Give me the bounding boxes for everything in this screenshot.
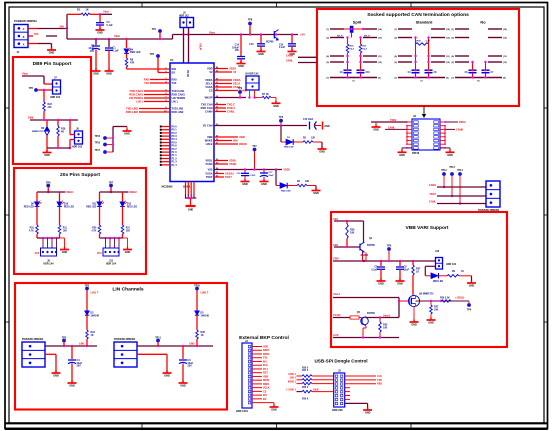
ic U1 left pin wires	[126, 67, 170, 114]
svg-text:DB9: DB9	[28, 116, 34, 120]
net label Vbat DB9	[22, 72, 28, 76]
capacitors No	[465, 69, 495, 83]
svg-text:CANL: CANL	[429, 200, 436, 203]
svg-text:LIN2: LIN2	[189, 342, 195, 346]
svg-text:INT: INT	[263, 394, 267, 397]
svg-text:BKP1: BKP1	[263, 349, 270, 352]
svg-text:BKP2: BKP2	[263, 353, 270, 356]
svg-text:GND: GND	[271, 409, 277, 412]
wire DB9 bus	[30, 119, 78, 121]
svg-text:R11: R11	[63, 228, 68, 230]
wire TP cluster to gnd	[112, 127, 127, 153]
svg-text:CANH: CANH	[456, 128, 463, 131]
wire Q5 emitter	[363, 326, 366, 338]
svg-text:1.3K: 1.3K	[426, 40, 431, 42]
resistor R31	[290, 370, 334, 381]
svg-text:TP5: TP5	[29, 87, 34, 90]
svg-text:(13): (13)	[446, 38, 450, 40]
ground C14	[237, 61, 246, 68]
svg-text:12K: 12K	[311, 137, 316, 139]
svg-text:TP8: TP8	[248, 19, 253, 22]
resistor R33	[379, 318, 388, 338]
svg-text:R34 0: R34 0	[302, 398, 309, 401]
ground R4	[312, 188, 321, 195]
wire J5 pin2 to U1	[188, 28, 190, 64]
svg-text:(4): (4)	[326, 55, 329, 58]
svg-text:TXD LIN2: TXD LIN2	[172, 106, 184, 110]
ground C20	[288, 49, 297, 56]
wire gate Q4	[399, 300, 408, 302]
svg-text:(14): (14)	[378, 28, 382, 31]
svg-text:4K: 4K	[61, 130, 64, 133]
svg-text:SO20L: SO20L	[183, 185, 191, 188]
test point TP2	[85, 284, 90, 311]
socket J2 DIP16	[412, 119, 440, 155]
wire R1 branch	[67, 13, 112, 28]
svg-text:VBB: VBB	[207, 135, 213, 139]
svg-text:DB9 Pin Support: DB9 Pin Support	[33, 61, 72, 67]
svg-text:GND: GND	[93, 73, 99, 76]
ground conn TP11	[163, 371, 172, 378]
ground R3	[318, 147, 327, 154]
diode D12	[120, 192, 137, 225]
wire J2 bottom right gnd	[440, 148, 455, 157]
svg-text:TP15: TP15	[95, 136, 101, 138]
svg-text:MMBZ27VC: MMBZ27VC	[32, 131, 44, 133]
svg-text:GND: GND	[53, 375, 59, 378]
net label VSUP	[199, 43, 203, 50]
svg-text:10K: 10K	[434, 308, 439, 311]
svg-text:1K: 1K	[416, 270, 419, 273]
svg-text:(5): (5)	[451, 62, 454, 64]
title DB9 Pin Support	[33, 61, 72, 67]
svg-text:VCAN: VCAN	[333, 313, 340, 317]
connector J10	[435, 250, 457, 269]
socket pin numbers Standard	[394, 28, 450, 80]
net label 3V3	[34, 33, 39, 36]
diode D2	[85, 311, 100, 330]
svg-text:1N4148: 1N4148	[201, 314, 210, 317]
net label 3V3 J9	[35, 252, 40, 255]
resistor R8	[125, 54, 134, 67]
wire CANL to P2	[429, 200, 486, 203]
svg-text:GND: GND	[378, 283, 384, 286]
socket J2 left pin stubs	[406, 121, 412, 149]
svg-text:22uF: 22uF	[269, 175, 275, 177]
svg-text:VSSA: VSSA	[205, 171, 212, 175]
ground R27	[427, 318, 436, 325]
svg-text:TEST: TEST	[206, 175, 213, 179]
wire top DBG2	[100, 191, 129, 193]
test point TP16	[95, 143, 114, 147]
svg-text:1K: 1K	[86, 8, 89, 11]
svg-text:(8): (8)	[378, 78, 381, 80]
svg-text:TP7: TP7	[109, 181, 114, 184]
resistor R24	[86, 330, 96, 346]
svg-text:GND: GND	[261, 183, 267, 186]
wire LIN bus LIN2	[137, 345, 213, 347]
svg-text:SCLK: SCLK	[263, 387, 270, 390]
svg-text:R21: R21	[126, 228, 131, 230]
capacitor C2	[96, 14, 113, 29]
capacitor C14	[232, 35, 245, 64]
ground U1	[186, 206, 196, 211]
svg-text:V2: V2	[233, 70, 237, 74]
svg-text:GND: GND	[242, 183, 248, 186]
svg-text:0.1uF: 0.1uF	[371, 268, 378, 271]
wires J6 to net	[248, 90, 255, 99]
svg-text:BCP68: BCP68	[266, 41, 274, 43]
svg-text:10K: 10K	[126, 230, 131, 232]
svg-text:0.1uF: 0.1uF	[279, 47, 286, 49]
svg-text:GND: GND	[325, 126, 330, 128]
net label DBG1	[67, 190, 75, 194]
svg-text:GND: GND	[319, 151, 325, 154]
svg-text:10K 1: 10K 1	[290, 377, 297, 380]
svg-text:RED LED: RED LED	[281, 190, 291, 192]
resistor R11	[58, 225, 67, 238]
ground C16	[241, 179, 250, 186]
connector J3 USB-SPI	[332, 370, 345, 412]
svg-text:DBG2: DBG2	[130, 190, 138, 194]
wire J2 pin16	[445, 121, 466, 124]
diode D11	[86, 192, 104, 225]
ic U1 body	[170, 58, 214, 181]
svg-text:SPLIT: SPLIT	[364, 36, 370, 38]
svg-text:LIN 1: LIN 1	[172, 99, 179, 103]
svg-text:20x Pins Support: 20x Pins Support	[60, 172, 100, 178]
zener diode D6	[32, 120, 49, 148]
ic U1 right pin names	[201, 66, 213, 178]
svg-text:HDR 1X2: HDR 1X2	[179, 16, 189, 18]
svg-text:1K: 1K	[201, 334, 204, 337]
svg-text:MOSI 1: MOSI 1	[288, 381, 297, 384]
svg-text:D10: D10	[64, 204, 69, 206]
wire Vbat to J7	[22, 76, 53, 84]
svg-text:TXD CAN1: TXD CAN1	[130, 89, 144, 93]
ground C15 sideways	[323, 122, 330, 130]
svg-text:Vme2: Vme2	[383, 314, 390, 318]
svg-text:(2): (2)	[394, 38, 397, 40]
svg-text:DBG1: DBG1	[67, 190, 75, 194]
mosfet Q4	[408, 292, 434, 306]
svg-text:VDD2: VDD2	[284, 169, 291, 172]
vertical link J2 right	[444, 126, 446, 145]
wire conn mid pin to gnd TP3	[45, 354, 56, 372]
net label Vme2	[383, 314, 390, 318]
svg-text:R30 0: R30 0	[302, 367, 309, 369]
transistor Q5	[357, 311, 376, 326]
svg-text:RXD CAN: RXD CAN	[201, 106, 213, 110]
svg-text:INH: INH	[233, 138, 238, 142]
svg-text:22uF: 22uF	[404, 268, 410, 271]
resistor R4	[297, 180, 316, 190]
svg-text:SIN: SIN	[172, 67, 176, 71]
wire J5 pin1 to U1	[183, 28, 185, 64]
svg-text:3V3: 3V3	[97, 252, 102, 255]
resistor R21	[121, 225, 130, 238]
svg-text:CANH: CANH	[286, 55, 293, 58]
svg-text:IN L: IN L	[263, 360, 268, 363]
svg-text:WKUP: WKUP	[205, 95, 213, 99]
svg-text:TP16: TP16	[95, 143, 101, 145]
svg-text:SELA: SELA	[206, 81, 213, 85]
wire Q4 drain right	[416, 300, 470, 302]
svg-text:J10: J10	[435, 250, 440, 253]
svg-text:GND: GND	[106, 73, 112, 76]
svg-text:IN H: IN H	[263, 364, 268, 367]
highlight box 20x Pins Support	[14, 168, 146, 274]
wire Q5 collector to Vme2	[366, 316, 399, 318]
wire bus2 to led row2	[275, 170, 277, 186]
svg-text:TP9: TP9	[238, 88, 243, 90]
svg-text:VDDL: VDDL	[229, 158, 237, 162]
svg-text:LIN1 T: LIN1 T	[91, 291, 99, 295]
label J2	[413, 114, 416, 118]
wire CANH into box	[286, 55, 317, 58]
svg-text:(7): (7)	[451, 78, 454, 80]
svg-text:CANL: CANL	[286, 60, 293, 63]
svg-text:GND: GND	[365, 412, 371, 415]
highlight box DB9 Pin Support	[13, 57, 91, 164]
svg-text:VB1: VB1	[333, 217, 339, 221]
svg-text:TP6: TP6	[387, 244, 392, 247]
svg-text:D12: D12	[127, 204, 132, 206]
capacitor C17	[260, 170, 274, 182]
capacitor C16	[236, 170, 256, 182]
ic U1 bottom pins	[186, 182, 195, 195]
highlight box VBB VARI Support	[331, 212, 507, 347]
svg-text:VSSA2: VSSA2	[225, 171, 234, 175]
connector TP3 PCB3HW label	[22, 338, 44, 341]
title VBB VARI Support	[405, 225, 448, 231]
connector J1 PCB3HW 3RW/RA label	[14, 19, 37, 23]
connector P2	[478, 181, 500, 212]
wire J1 pin2 stub	[28, 35, 57, 37]
svg-text:R33 0: R33 0	[302, 387, 309, 389]
wire R37 to Q4 drain	[412, 275, 414, 296]
net label DB9	[28, 116, 34, 120]
ground J2 left	[372, 125, 381, 132]
wire J10 pin2 to LED	[425, 266, 435, 276]
ground C1	[105, 69, 114, 76]
wire J8 pins	[69, 120, 75, 149]
wire standard vertical links	[414, 44, 429, 70]
svg-text:VS2: VS2	[208, 167, 213, 171]
wire main VBAT bus	[67, 35, 298, 40]
test point TP4	[467, 301, 472, 311]
net label Vbat top	[103, 10, 109, 14]
wire VBAT to P2	[429, 193, 486, 196]
wires to connector J9	[43, 238, 57, 248]
capacitor C4	[68, 346, 83, 383]
wire J2 CANL	[385, 126, 407, 129]
wire Q4 source to gnd	[413, 307, 415, 322]
svg-text:35V: 35V	[77, 365, 82, 368]
svg-text:VDD: VDD	[207, 66, 213, 70]
net label VB2 stub	[333, 243, 360, 248]
wire J3 to gnd	[345, 403, 368, 409]
svg-text:RED LED: RED LED	[64, 206, 74, 208]
socket pin bars Split	[330, 29, 377, 78]
net label LIN2 T	[201, 291, 209, 295]
svg-text:(8): (8)	[446, 78, 449, 80]
wires J3 right pins	[345, 375, 383, 386]
connector J8	[72, 128, 83, 149]
resistor R9	[447, 271, 472, 283]
capacitor C9	[396, 261, 410, 281]
svg-text:(11): (11)	[378, 56, 382, 58]
wire J7 pin2	[43, 89, 53, 102]
ground Q4	[410, 320, 419, 327]
resistor R29	[346, 221, 355, 247]
title Socked supported CAN termination options	[367, 12, 469, 18]
svg-text:(5): (5)	[326, 62, 329, 64]
ground C13	[257, 49, 266, 56]
capacitor C8	[371, 261, 385, 281]
wire bus1 to led row	[280, 126, 282, 143]
svg-text:TP13: TP13	[449, 167, 455, 169]
test point TP8	[248, 19, 253, 35]
svg-text:CANL: CANL	[227, 109, 235, 113]
svg-text:RED LED: RED LED	[24, 206, 34, 208]
net label VB1 stub	[333, 217, 364, 222]
junction dots on VBAT bus	[95, 33, 293, 40]
ground C4	[68, 381, 77, 388]
svg-text:RXD CAN1: RXD CAN1	[129, 92, 143, 96]
svg-text:AUX: AUX	[333, 333, 339, 337]
svg-text:220: 220	[48, 106, 53, 109]
svg-text:HDR 1X2: HDR 1X2	[50, 96, 61, 99]
svg-text:RXD LIN2: RXD LIN2	[126, 110, 139, 114]
svg-text:TP10: TP10	[194, 284, 200, 287]
wire conn mid pin to gnd TP11	[137, 354, 167, 372]
svg-text:(4): (4)	[394, 55, 397, 58]
test point TP3	[62, 336, 67, 346]
wire no vertical links	[471, 61, 486, 70]
svg-text:RXD CAN1: RXD CAN1	[172, 92, 186, 96]
svg-text:R36 2.2K: R36 2.2K	[440, 298, 450, 300]
wires J4 pins	[252, 347, 274, 403]
svg-text:47K: 47K	[130, 61, 135, 64]
svg-text:TXD LIN2: TXD LIN2	[126, 106, 138, 110]
test point TP19	[387, 244, 392, 262]
svg-text:(5): (5)	[394, 62, 397, 64]
net label Vbat 2	[209, 30, 215, 34]
test point TP6	[46, 181, 51, 193]
svg-text:TX0: TX0	[144, 81, 149, 85]
net label Vbat	[114, 34, 120, 38]
test point TP1	[152, 28, 162, 40]
socket pin numbers Split	[326, 28, 382, 80]
connector LIN TP11	[114, 342, 137, 367]
svg-text:(7): (7)	[394, 78, 397, 80]
svg-text:VDDA: VDDA	[233, 78, 241, 82]
resistor R15	[346, 36, 354, 70]
svg-text:VDD: VDD	[263, 345, 268, 348]
svg-text:Q4 MMBF170: Q4 MMBF170	[419, 292, 434, 295]
svg-text:GND: GND	[238, 65, 244, 68]
test point TP10	[194, 284, 200, 311]
svg-text:GND: GND	[428, 322, 434, 325]
ground TP cluster	[123, 129, 132, 136]
wire J2 bottom left gnd	[398, 148, 413, 157]
svg-text:TXD: TXD	[377, 379, 382, 382]
svg-text:GND: GND	[313, 192, 319, 195]
resistor R33b	[286, 387, 333, 393]
svg-text:(13): (13)	[503, 38, 507, 40]
svg-text:GND: GND	[397, 283, 403, 286]
svg-text:BCP68: BCP68	[367, 312, 375, 315]
svg-text:LIN B: LIN B	[206, 142, 213, 146]
svg-text:GND: GND	[69, 385, 75, 388]
ic U1 inside vertical label	[186, 70, 188, 77]
svg-text:GND: GND	[44, 154, 50, 157]
svg-text:3Vb: 3Vb	[59, 25, 64, 28]
wire LIN bus LIN1	[45, 345, 97, 347]
diode D3	[281, 137, 303, 149]
svg-text:Socked supported CAN terminati: Socked supported CAN termination options	[367, 12, 469, 18]
svg-text:WAKE: WAKE	[205, 138, 213, 142]
diode D7	[431, 273, 447, 283]
resistor R22	[43, 102, 53, 120]
title No	[480, 20, 486, 25]
svg-text:1 100K 1: 1 100K 1	[286, 389, 296, 392]
svg-text:0.1UF: 0.1UF	[250, 175, 257, 177]
resistor R16	[359, 36, 367, 70]
ground J1	[47, 48, 56, 55]
svg-text:CLK: CLK	[377, 375, 382, 378]
capacitor C13	[249, 35, 265, 52]
ground C3	[92, 69, 101, 76]
svg-text:R7 1K: R7 1K	[262, 93, 269, 96]
svg-text:Vbat: Vbat	[22, 72, 28, 76]
svg-text:TP5: TP5	[279, 117, 284, 119]
diode D10b	[276, 183, 297, 193]
svg-text:RXD2: RXD2	[459, 121, 466, 124]
svg-text:TP6: TP6	[46, 181, 51, 184]
svg-text:RED LED: RED LED	[127, 206, 137, 208]
wire AUX	[333, 336, 399, 338]
jumper cap on split row1	[344, 26, 364, 38]
svg-text:VB2: VB2	[333, 243, 339, 247]
svg-text:U1: U1	[170, 58, 174, 62]
svg-text:CANH: CANH	[205, 109, 213, 113]
title USB-SPI Dongle Control	[314, 359, 367, 364]
svg-text:VBB: VBB	[239, 135, 245, 139]
socket J2 right pin stubs	[440, 121, 446, 149]
diode D4	[124, 39, 141, 54]
svg-text:12K: 12K	[305, 181, 310, 183]
svg-text:VSSA: VSSA	[205, 85, 212, 89]
svg-text:TXD CAN: TXD CAN	[201, 102, 213, 106]
svg-text:No: No	[480, 20, 486, 25]
svg-text:TP2: TP2	[85, 284, 90, 287]
diode D10	[57, 192, 74, 225]
socket pin numbers No	[451, 28, 507, 80]
svg-text:P1 4: P1 4	[172, 164, 178, 167]
svg-text:(8): (8)	[503, 78, 506, 80]
svg-text:GND: GND	[49, 52, 55, 55]
svg-text:PCB3HW 3RW/RA: PCB3HW 3RW/RA	[478, 209, 500, 212]
svg-text:R31 0: R31 0	[302, 370, 309, 372]
svg-text:VSUP: VSUP	[199, 43, 203, 50]
svg-text:CANH: CANH	[429, 184, 436, 187]
svg-text:(13): (13)	[378, 38, 382, 40]
svg-text:10K: 10K	[350, 231, 355, 234]
svg-text:(2): (2)	[326, 38, 329, 40]
ground J3	[363, 408, 372, 415]
